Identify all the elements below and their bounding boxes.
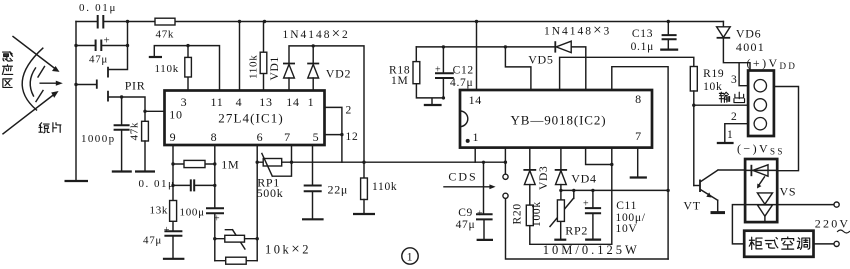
svg-text:1N4148×3: 1N4148×3 — [544, 23, 611, 39]
svg-text:+: + — [164, 225, 170, 236]
svg-text:4001: 4001 — [736, 40, 765, 54]
svg-text:2: 2 — [731, 111, 737, 123]
svg-text:7: 7 — [284, 130, 291, 144]
svg-text:VS: VS — [780, 185, 797, 199]
svg-text:47μ: 47μ — [89, 54, 108, 66]
svg-text:1: 1 — [308, 95, 315, 109]
svg-text:YB—9018(IC2): YB—9018(IC2) — [510, 113, 606, 128]
svg-text:C12: C12 — [453, 65, 474, 77]
svg-text:10k: 10k — [703, 81, 722, 93]
svg-text:110k: 110k — [155, 63, 179, 75]
svg-text:14: 14 — [286, 95, 299, 109]
svg-text:9: 9 — [170, 130, 177, 144]
svg-text:3: 3 — [731, 74, 737, 86]
svg-text:C9: C9 — [458, 207, 473, 219]
svg-text:R20: R20 — [512, 203, 524, 224]
svg-text:+: + — [583, 199, 589, 210]
svg-text:47k: 47k — [129, 122, 141, 141]
svg-text:RP2: RP2 — [565, 224, 588, 238]
svg-text:+: + — [214, 214, 220, 225]
svg-text:VD6: VD6 — [736, 27, 761, 41]
svg-text:2: 2 — [346, 105, 352, 117]
svg-text:4.7μ: 4.7μ — [450, 77, 473, 89]
svg-text:1: 1 — [472, 130, 479, 144]
svg-text:1M: 1M — [391, 75, 408, 87]
svg-text:C13: C13 — [632, 28, 653, 40]
svg-text:220V: 220V — [815, 217, 850, 231]
svg-text:47μ: 47μ — [456, 219, 476, 231]
svg-text:VT: VT — [683, 199, 700, 213]
svg-text:VD1: VD1 — [269, 56, 281, 80]
svg-text:110k: 110k — [248, 55, 260, 79]
svg-text:VD3: VD3 — [538, 166, 550, 190]
svg-text:CDS: CDS — [448, 170, 477, 184]
svg-text:+: + — [477, 209, 483, 220]
svg-text:13: 13 — [259, 95, 272, 109]
svg-text:10M/0.125W: 10M/0.125W — [543, 243, 640, 257]
svg-text:500k: 500k — [257, 186, 284, 200]
svg-text:1N4148×2: 1N4148×2 — [283, 26, 350, 42]
svg-text:12: 12 — [346, 131, 359, 143]
svg-text:1000p: 1000p — [81, 133, 116, 145]
svg-text:1: 1 — [727, 129, 733, 141]
svg-text:0. 01μ: 0. 01μ — [79, 2, 117, 14]
svg-text:5: 5 — [313, 130, 320, 144]
svg-text:0.1μ: 0.1μ — [631, 41, 654, 53]
svg-text:+: + — [104, 35, 111, 47]
svg-text:47k: 47k — [156, 29, 175, 41]
svg-text:110k: 110k — [372, 181, 397, 193]
svg-text:14: 14 — [469, 93, 482, 107]
svg-text:10V: 10V — [616, 223, 638, 235]
svg-text:8: 8 — [211, 130, 218, 144]
svg-text:100μ: 100μ — [180, 207, 205, 219]
svg-text:7: 7 — [635, 129, 642, 143]
svg-text:4: 4 — [236, 95, 243, 109]
svg-text:(−)VSS: (−)VSS — [737, 142, 785, 157]
svg-text:VD4: VD4 — [571, 172, 596, 186]
svg-text:+: + — [435, 65, 441, 76]
svg-text:13k: 13k — [150, 205, 169, 217]
svg-text:VD5: VD5 — [528, 53, 553, 67]
svg-text:10: 10 — [169, 108, 182, 122]
svg-text:PIR: PIR — [125, 79, 146, 93]
svg-text:100k: 100k — [531, 201, 543, 227]
svg-text:27L4(IC1): 27L4(IC1) — [218, 111, 284, 126]
svg-text:(+)VDD: (+)VDD — [747, 56, 798, 71]
svg-text:R19: R19 — [703, 68, 724, 80]
svg-text:11: 11 — [211, 95, 224, 109]
svg-text:1M: 1M — [221, 158, 239, 172]
svg-text:6: 6 — [257, 130, 264, 144]
svg-text:8: 8 — [635, 92, 642, 106]
svg-text:1: 1 — [407, 250, 414, 264]
svg-text:10k×2: 10k×2 — [265, 242, 311, 258]
svg-text:22μ: 22μ — [328, 183, 349, 197]
svg-text:47μ: 47μ — [143, 235, 162, 247]
svg-text:VD2: VD2 — [326, 67, 351, 81]
svg-text:C11: C11 — [616, 200, 637, 212]
svg-text:0. 01μ: 0. 01μ — [139, 178, 176, 190]
